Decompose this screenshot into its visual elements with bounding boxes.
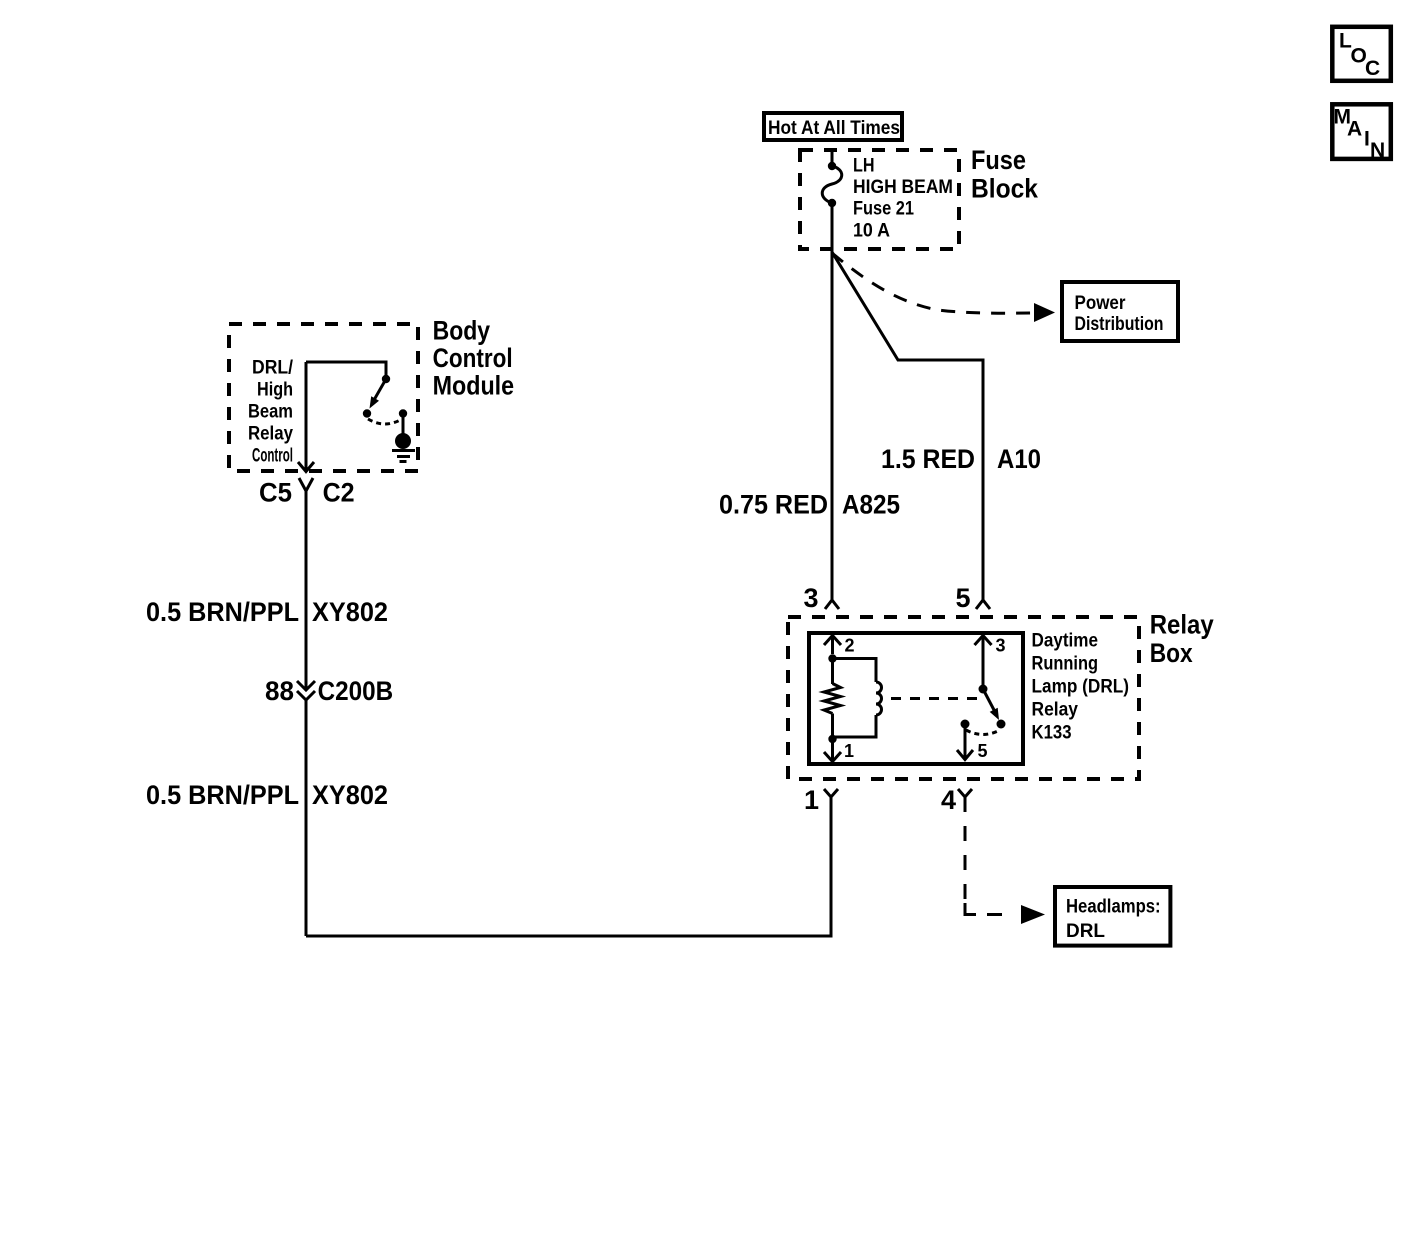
svg-text:High: High: [257, 380, 293, 401]
svg-text:10 A: 10 A: [853, 221, 890, 242]
svg-text:XY802: XY802: [312, 597, 388, 627]
svg-text:5: 5: [978, 741, 988, 761]
svg-text:Body: Body: [433, 315, 491, 345]
svg-text:Control: Control: [252, 446, 293, 467]
svg-text:0.75 RED: 0.75 RED: [719, 490, 828, 520]
svg-text:A10: A10: [997, 444, 1041, 474]
svg-text:1: 1: [804, 785, 819, 815]
svg-text:Fuse: Fuse: [971, 145, 1026, 175]
svg-text:Lamp (DRL): Lamp (DRL): [1032, 677, 1130, 698]
svg-text:Power: Power: [1075, 293, 1127, 314]
svg-text:C5: C5: [259, 478, 292, 508]
svg-text:DRL/: DRL/: [252, 358, 294, 379]
svg-text:Beam: Beam: [248, 402, 293, 423]
svg-text:Headlamps:: Headlamps:: [1066, 897, 1161, 918]
svg-text:Daytime: Daytime: [1032, 631, 1099, 652]
svg-text:4: 4: [941, 785, 956, 815]
svg-text:88: 88: [265, 676, 294, 706]
svg-text:0.5 BRN/PPL: 0.5 BRN/PPL: [146, 597, 299, 627]
svg-text:Module: Module: [433, 371, 514, 401]
svg-text:A: A: [1347, 118, 1362, 141]
svg-text:XY802: XY802: [312, 780, 388, 810]
svg-text:Relay: Relay: [248, 424, 293, 445]
svg-text:HIGH BEAM: HIGH BEAM: [853, 177, 953, 198]
svg-text:2: 2: [845, 636, 855, 656]
svg-text:Fuse 21: Fuse 21: [853, 199, 914, 220]
svg-text:DRL: DRL: [1066, 921, 1105, 942]
svg-text:LH: LH: [853, 156, 875, 177]
svg-text:C200B: C200B: [318, 676, 394, 706]
svg-text:Running: Running: [1032, 654, 1099, 675]
svg-text:1: 1: [844, 741, 854, 761]
svg-text:Control: Control: [433, 343, 513, 373]
svg-text:C: C: [1365, 57, 1380, 80]
svg-text:3: 3: [996, 636, 1006, 656]
svg-text:N: N: [1370, 139, 1385, 162]
svg-text:Relay: Relay: [1032, 700, 1079, 721]
svg-text:Distribution: Distribution: [1075, 314, 1164, 335]
svg-text:1.5 RED: 1.5 RED: [881, 444, 975, 474]
svg-text:5: 5: [955, 583, 970, 613]
svg-text:Relay: Relay: [1150, 610, 1214, 640]
svg-text:Block: Block: [971, 174, 1039, 204]
svg-text:C2: C2: [323, 478, 355, 508]
svg-text:Box: Box: [1150, 638, 1193, 668]
svg-text:Hot At All Times: Hot At All Times: [768, 118, 900, 139]
svg-text:3: 3: [803, 583, 818, 613]
svg-text:0.5 BRN/PPL: 0.5 BRN/PPL: [146, 780, 299, 810]
svg-text:I: I: [1364, 128, 1370, 151]
svg-text:A825: A825: [842, 490, 900, 520]
svg-text:K133: K133: [1032, 723, 1072, 744]
